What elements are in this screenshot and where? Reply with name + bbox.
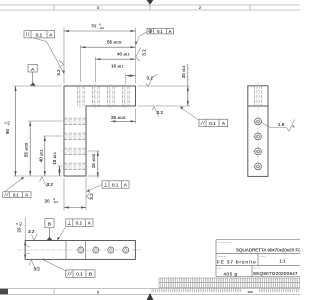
svg-text:25 ±0.02: 25 ±0.02 (111, 115, 126, 120)
svg-text:-0.1: -0.1 (100, 27, 105, 30)
svg-text:SEQ90TO20200647: SEQ90TO20200647 (253, 271, 298, 276)
svg-text:Dis. N°: Dis. N° (254, 268, 261, 270)
svg-text:40 ±0.1: 40 ±0.1 (117, 51, 130, 56)
svg-text:0.1: 0.1 (209, 121, 216, 126)
svg-text:3.2: 3.2 (56, 69, 61, 76)
svg-text:16 ±0.1: 16 ±0.1 (111, 63, 124, 68)
svg-text:A: A (25, 193, 28, 198)
svg-text:B: B (89, 272, 92, 277)
svg-text:1:1: 1:1 (279, 259, 286, 264)
svg-text:A: A (169, 29, 172, 34)
svg-text:3.2: 3.2 (89, 193, 94, 200)
svg-text:-0.1: -0.1 (8, 121, 11, 126)
svg-text:3.2: 3.2 (147, 76, 154, 81)
svg-text:25 ±0.02: 25 ±0.02 (91, 154, 96, 169)
svg-text:Peso: Peso (218, 268, 224, 270)
svg-text:20: 20 (45, 199, 51, 204)
svg-text:20: 20 (17, 227, 22, 233)
svg-text:-0.1: -0.1 (19, 222, 22, 227)
svg-text:1.6: 1.6 (278, 122, 285, 127)
svg-text:0.1: 0.1 (76, 221, 83, 226)
svg-text:3.2: 3.2 (142, 49, 147, 56)
svg-text:0.1: 0.1 (13, 193, 19, 198)
svg-text:55 ±0.02: 55 ±0.02 (24, 143, 29, 158)
svg-text:-0.1: -0.1 (54, 201, 59, 204)
svg-text:0.1: 0.1 (36, 32, 43, 37)
svg-text:3: 3 (97, 6, 99, 10)
svg-text:SQUADRETTA 90x70x20x20 FORATA: SQUADRETTA 90x70x20x20 FORATA (236, 248, 300, 253)
svg-text:3: 3 (97, 291, 99, 295)
svg-text:3.2: 3.2 (157, 110, 164, 115)
svg-text:3.2: 3.2 (34, 266, 41, 271)
svg-text:40 ±0.1: 40 ±0.1 (39, 149, 44, 162)
svg-text:100: 100 (247, 290, 252, 294)
svg-text:0.1: 0.1 (157, 29, 163, 34)
svg-text:FE 37 brunito: FE 37 brunito (217, 259, 256, 264)
svg-text:20 ±0.1: 20 ±0.1 (181, 65, 186, 78)
svg-text:3.2: 3.2 (47, 182, 54, 187)
svg-text:Denominazione: Denominazione (218, 242, 234, 244)
svg-text:18 ±0.1: 18 ±0.1 (52, 152, 57, 165)
svg-text:55 ±0.02: 55 ±0.02 (107, 40, 122, 45)
svg-text:Scala: Scala (260, 256, 266, 258)
svg-text:0.1: 0.1 (76, 272, 83, 277)
svg-text:Materiale: Materiale (218, 255, 228, 258)
svg-text:70: 70 (91, 24, 97, 29)
svg-text:B: B (48, 221, 51, 226)
svg-text:N: N (293, 126, 295, 129)
svg-text:2: 2 (199, 6, 201, 10)
svg-text:3.2: 3.2 (28, 229, 35, 234)
svg-text:90: 90 (5, 129, 10, 135)
svg-text:0.1: 0.1 (112, 182, 119, 187)
svg-text:405 g: 405 g (224, 271, 238, 276)
